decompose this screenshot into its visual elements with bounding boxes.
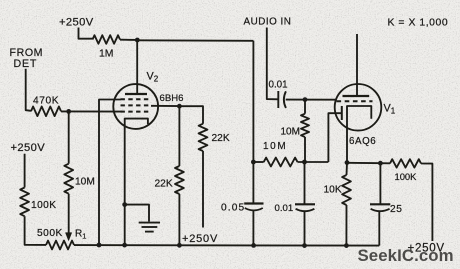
wire diode plate lead bbox=[328, 113, 341, 162]
wire bottom rail bbox=[74, 244, 379, 247]
wire +250V top feed to 1M bbox=[79, 28, 93, 39]
V1 grid row (dashes) bbox=[337, 100, 373, 102]
V2 plate bar bbox=[125, 93, 147, 95]
node AVC corner J15 bbox=[251, 160, 256, 165]
wire 10M-h to diode lead corner bbox=[298, 161, 329, 163]
wire 10M to wiper arrow bbox=[68, 194, 70, 233]
wire cathode row to 100K bbox=[347, 162, 390, 165]
wire V2 screen lead to J2 bbox=[151, 105, 179, 107]
wire 10K to bottom rail bbox=[345, 205, 347, 246]
svg-text:10M: 10M bbox=[263, 141, 287, 152]
wire 1M to plate junction bbox=[120, 39, 137, 41]
node bottom rail J11 bbox=[344, 243, 349, 248]
capacitor C 25 bottom lead bbox=[378, 212, 380, 246]
wire 10M vertical to AVC row bbox=[304, 137, 306, 162]
resistor 22K lower bbox=[175, 166, 184, 194]
node screen junction J2 bbox=[177, 104, 182, 109]
wire 100K to +250V drop bbox=[421, 164, 432, 242]
V1 cathode hook bbox=[347, 106, 371, 163]
capacitor C 25 plates bbox=[370, 203, 390, 205]
svg-text:K = X 1,000: K = X 1,000 bbox=[388, 18, 449, 29]
wire FROM DET lead bbox=[26, 69, 31, 111]
node bottom rail J4 bbox=[122, 243, 127, 248]
svg-text:10M: 10M bbox=[75, 177, 95, 188]
svg-text:1M: 1M bbox=[99, 49, 113, 60]
svg-text:0.01: 0.01 bbox=[269, 80, 288, 91]
node bottom rail J8 bbox=[177, 243, 182, 248]
wire V2 cathode lead bbox=[124, 124, 126, 245]
svg-text:+250V: +250V bbox=[182, 233, 218, 245]
svg-text:100K: 100K bbox=[395, 171, 418, 182]
wire row to 10M horizontal bbox=[253, 161, 263, 163]
wire +250V left feed bbox=[24, 154, 26, 188]
wire J10 down to 10K bbox=[346, 163, 349, 175]
wire top rail to coupling corner bbox=[137, 39, 253, 42]
node bottom rail J7 bbox=[97, 243, 102, 248]
V1 plate lead bbox=[356, 34, 358, 96]
potentiometer 500K bbox=[46, 241, 74, 250]
node cathode-ground junction J3 bbox=[122, 202, 127, 207]
svg-text:25: 25 bbox=[390, 204, 403, 215]
pot wiper arrowhead R1 bbox=[66, 233, 72, 241]
capacitor C 0.01 coupling left plate bbox=[277, 91, 279, 108]
svg-text:10K: 10K bbox=[324, 185, 342, 196]
node bottom rail J14 bbox=[302, 243, 307, 248]
svg-text:+250V: +250V bbox=[59, 17, 94, 29]
svg-text:SeekIC.com: SeekIC.com bbox=[358, 246, 454, 265]
V1 plate bar bbox=[343, 95, 370, 97]
capacitor C 0.01 coupling right plate bbox=[284, 91, 286, 108]
node grid junction J6 bbox=[66, 109, 71, 114]
wire J2 down to 22K lower bbox=[178, 106, 180, 166]
resistor 10M horizontal bbox=[264, 158, 298, 167]
svg-text:DET: DET bbox=[14, 58, 38, 70]
tube V1 envelope bbox=[335, 84, 382, 131]
resistor 470K bbox=[31, 107, 61, 117]
capacitor C 25 top lead bbox=[379, 163, 381, 204]
V2 grid row 2 (dashes) bbox=[121, 104, 152, 106]
capacitor C 0.01 shunt bottom lead bbox=[304, 212, 306, 246]
svg-text:+250V: +250V bbox=[11, 142, 46, 154]
node bottom rail J13 bbox=[251, 243, 256, 248]
node grid junction J5 bbox=[303, 97, 308, 102]
V1 diode plate bar bbox=[341, 106, 343, 120]
svg-text:22K: 22K bbox=[155, 179, 173, 190]
wire 470K to V2 grid bbox=[61, 110, 123, 112]
wire ground branch bbox=[125, 205, 149, 222]
svg-text:0.05: 0.05 bbox=[221, 203, 245, 214]
svg-text:6AQ6: 6AQ6 bbox=[349, 136, 376, 147]
capacitor C 0.01 shunt plates bbox=[295, 203, 315, 205]
node junction J12 bbox=[378, 161, 383, 166]
wire J6 down to 10M bbox=[68, 111, 70, 163]
wire AUDIO IN lead bbox=[267, 28, 278, 100]
node plate junction J1 bbox=[135, 38, 140, 43]
wire 22K lower to bottom rail bbox=[178, 194, 180, 245]
svg-text:500K: 500K bbox=[37, 228, 63, 239]
capacitor C 0.05 plates bbox=[244, 202, 263, 204]
resistor 10M left bbox=[64, 164, 73, 194]
wire coupling cap to grid junction bbox=[286, 99, 336, 101]
node AVC junction J9 bbox=[302, 160, 307, 165]
node cathode junction J10 bbox=[345, 160, 350, 165]
capacitor C 0.01 shunt top lead bbox=[304, 162, 306, 204]
svg-text:0.01: 0.01 bbox=[275, 203, 294, 214]
wire J5 down to 10M vertical bbox=[304, 100, 306, 114]
tube V2 envelope bbox=[113, 84, 158, 129]
resistor 22K upper bbox=[199, 124, 208, 151]
V2 grid row 3 (dashes) bbox=[121, 111, 152, 113]
V2 grid row 1 (dashes) bbox=[121, 98, 152, 100]
wire 22K upper to +250V stub bbox=[202, 151, 204, 228]
wire V2 plate lead bbox=[136, 40, 138, 93]
resistor R 1M bbox=[93, 35, 121, 44]
svg-text:10M: 10M bbox=[281, 127, 300, 138]
resistor 100K left bbox=[20, 188, 29, 217]
resistor 100K right bbox=[390, 159, 421, 167]
resistor 10M vertical bbox=[301, 114, 309, 137]
svg-text:100K: 100K bbox=[31, 200, 56, 211]
capacitor C 0.05 top lead bbox=[252, 162, 254, 203]
resistor 10K bbox=[342, 175, 351, 205]
wire V2 suppressor to down-line bbox=[99, 100, 121, 245]
svg-text:470K: 470K bbox=[33, 96, 59, 107]
V2 cathode hook bbox=[125, 119, 148, 125]
svg-text:6BH6: 6BH6 bbox=[160, 93, 184, 104]
ground symbol bbox=[139, 222, 160, 224]
capacitor C 0.05 bottom lead bbox=[252, 211, 254, 245]
wire J2 to 22K top corner bbox=[179, 106, 203, 124]
wire coupling corner down to AVC row bbox=[252, 41, 254, 162]
svg-text:AUDIO IN: AUDIO IN bbox=[244, 17, 292, 28]
wire 100K to bottom rail corner bbox=[25, 216, 46, 245]
svg-text:22K: 22K bbox=[212, 133, 230, 144]
